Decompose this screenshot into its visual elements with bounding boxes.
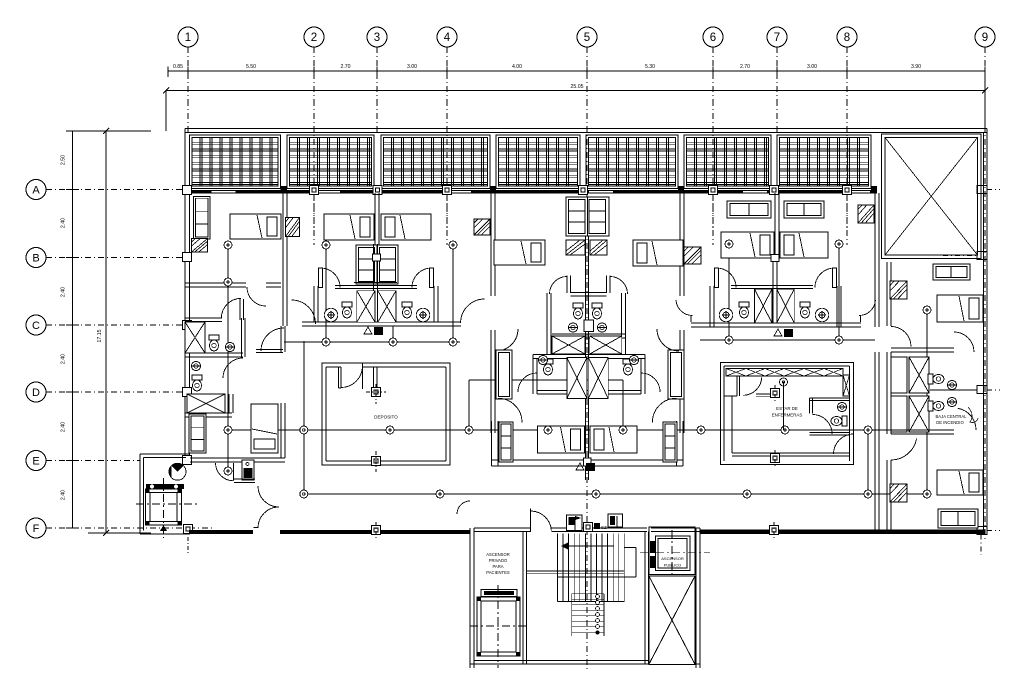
- unit3 toilet D: [623, 359, 633, 375]
- svg-text:2.70: 2.70: [340, 64, 350, 70]
- rightwing door arc C: [891, 327, 911, 347]
- grid bubble 9: [975, 27, 995, 47]
- DEPOSITO room walls: [322, 363, 450, 465]
- unit3 lower door L: [518, 373, 537, 392]
- grid line 5 dash: [586, 100, 588, 672]
- marker right wall row D: [977, 386, 987, 394]
- nurses hatch col: [843, 375, 850, 396]
- unit4 sink L: [719, 308, 733, 322]
- node 623,430: [619, 426, 627, 434]
- unit3 lower walls: [491, 459, 683, 461]
- grid bubble B: [26, 248, 46, 268]
- stair door leaf+arc: [530, 509, 532, 533]
- rightwing bath bottom wall: [891, 429, 954, 431]
- svg-text:6: 6: [710, 32, 716, 44]
- unit1 bath2 sink: [191, 361, 200, 370]
- vestibule double door: [258, 486, 279, 507]
- svg-text:5.50: 5.50: [246, 64, 256, 70]
- rightwing hatch: [890, 281, 907, 299]
- left block semicircle drain: [169, 463, 186, 480]
- unit3 spine box: [584, 458, 592, 466]
- left dimension line: [72, 131, 74, 528]
- icon flag 1: [567, 515, 582, 531]
- left exterior wall: [184, 129, 186, 462]
- svg-text:2.40: 2.40: [61, 490, 67, 500]
- lower room sofa: [189, 414, 206, 453]
- rightwing hatch low: [890, 484, 907, 502]
- svg-text:C: C: [32, 320, 40, 332]
- node 326,245: [322, 241, 330, 249]
- grid line 5 stub: [586, 47, 588, 100]
- unit4 toilet L2: [739, 302, 749, 318]
- vestibule door arc: [216, 463, 234, 481]
- column marker x847: [843, 186, 852, 195]
- rightwing toilet B: [928, 401, 944, 411]
- marker right wall row A: [977, 186, 987, 194]
- ceiling/column network lines: [284, 341, 460, 343]
- node 596,494: [592, 490, 600, 498]
- svg-text:F: F: [33, 523, 40, 535]
- unit4 headboard L: [727, 201, 771, 218]
- unit2 corr door arc R: [461, 299, 485, 323]
- wall unit3/unit4 lower: [679, 330, 681, 433]
- unit3 sofa L: [499, 422, 513, 462]
- unit1 room door arc: [247, 287, 266, 306]
- lower stair flight: [572, 593, 604, 595]
- unit1 bath door arc: [223, 358, 243, 378]
- svg-text:ENFERMERAS: ENFERMERAS: [772, 413, 803, 418]
- wall unit2/unit3 upper: [490, 193, 492, 296]
- unit1 bath1 door arc: [221, 298, 241, 318]
- grid line E dash: [46, 460, 140, 462]
- grid bubble 5: [577, 27, 597, 47]
- wall unit4 center: [774, 193, 776, 259]
- svg-text:3.90: 3.90: [911, 64, 921, 70]
- node 469,430: [465, 426, 473, 434]
- unit3 corr door L: [496, 329, 518, 351]
- svg-text:17.15: 17.15: [97, 329, 103, 342]
- node 839,340: [835, 336, 843, 344]
- shaft X bottom: [649, 576, 695, 665]
- terrace rear wall (thick): [190, 190, 878, 194]
- unit1 bath wall low: [185, 352, 243, 354]
- svg-text:3.00: 3.00: [407, 64, 417, 70]
- unit4 sink R: [815, 308, 829, 322]
- grid bubble 1: [178, 27, 198, 47]
- node 729,340: [725, 336, 733, 344]
- unit1 bath shower: [185, 322, 205, 353]
- column marker party x377.5: [373, 186, 382, 195]
- node 868,494: [864, 490, 872, 498]
- grid bubble 3: [367, 27, 387, 47]
- svg-text:4.00: 4.00: [512, 64, 522, 70]
- unit3 sink D: [629, 355, 638, 364]
- svg-text:1: 1: [185, 32, 191, 44]
- svg-text:2.50: 2.50: [61, 155, 67, 165]
- unit3 hatch tri L: [566, 240, 585, 255]
- unit3 lower door R: [652, 398, 676, 422]
- unit2 shower pair: [357, 291, 375, 323]
- unit1 bath toilet: [209, 335, 219, 351]
- grid bubble 6: [703, 27, 723, 47]
- unit2 wardrobe pair: [356, 245, 398, 284]
- nurses sink: [837, 402, 846, 411]
- grid line 1 dash: [187, 100, 189, 135]
- unit2 door arc R: [412, 268, 432, 288]
- rightwing bed low: [937, 470, 983, 495]
- svg-text:PUBLICO: PUBLICO: [664, 563, 682, 568]
- rightwing door arc S2: [958, 408, 976, 430]
- nurses wc walls: [808, 398, 810, 414]
- grid line D dash: [46, 391, 185, 393]
- rightwing bath top wall: [891, 347, 954, 349]
- grid line 6 stub: [712, 47, 714, 100]
- svg-text:BAJA CENTRAL: BAJA CENTRAL: [936, 414, 968, 419]
- wall unit2 center: [374, 193, 376, 259]
- node 228,471: [224, 467, 232, 475]
- unit4 bath walls: [709, 286, 711, 327]
- unit4 hatrack: [858, 205, 874, 223]
- grid line 9 stub: [984, 47, 986, 100]
- unit3 hatrack R: [684, 247, 701, 264]
- node 548,430: [544, 426, 552, 434]
- unit4 toilet R1: [800, 302, 810, 318]
- node 390,430: [386, 426, 394, 434]
- node 453,245: [449, 241, 457, 249]
- unit2 corr door arc L: [292, 300, 316, 324]
- svg-text:5: 5: [584, 32, 590, 44]
- node 228,282: [224, 278, 232, 286]
- terrace party-wall columns: [281, 186, 288, 194]
- unit1 bath top wall: [185, 317, 222, 319]
- unit4 door arc R: [859, 300, 876, 316]
- nurses door arc: [743, 377, 761, 395]
- DEPOSITO col marker top: [372, 388, 381, 397]
- column marker party x583: [579, 186, 588, 195]
- marker south x376: [372, 526, 381, 535]
- grid bubble 2: [304, 27, 324, 47]
- unit3 shower C: [567, 358, 587, 399]
- rightwing corridor wall W: [874, 259, 876, 327]
- south wall thick east: [700, 530, 985, 535]
- svg-text:5.30: 5.30: [645, 64, 655, 70]
- node 839,244: [835, 240, 843, 248]
- svg-text:PRIVADO: PRIVADO: [489, 558, 508, 563]
- unit1 bed: [230, 214, 281, 239]
- svg-text:DE INCENDIO: DE INCENDIO: [936, 420, 964, 425]
- svg-text:ESTAR DE: ESTAR DE: [776, 406, 798, 411]
- unit3 bed R: [633, 240, 683, 266]
- node 228,245: [224, 241, 232, 249]
- unit4 bath door L: [717, 268, 737, 288]
- nurses counter wall: [756, 393, 779, 395]
- node 927,310: [923, 306, 931, 314]
- icon mid: [584, 523, 593, 532]
- grid line 4 dash: [446, 100, 448, 245]
- unit1 hall wall: [280, 326, 282, 352]
- grid line 9 dash: [984, 100, 986, 540]
- rightwing bed: [937, 295, 983, 322]
- column marker party x774: [770, 186, 779, 195]
- node 747,494: [743, 490, 751, 498]
- svg-text:0.85: 0.85: [173, 64, 183, 70]
- nurses entry door: [834, 434, 854, 454]
- grid line 4 stub: [446, 47, 448, 100]
- rightwing shower cells: [891, 357, 907, 393]
- unit1 bath2 toilet: [192, 375, 202, 391]
- svg-text:ASCENSOR: ASCENSOR: [486, 552, 510, 557]
- grid line 8 stub: [846, 47, 848, 100]
- unit1 bath right wall: [241, 318, 243, 357]
- unit3 bed L: [494, 240, 545, 265]
- rightwing sink A: [947, 380, 956, 389]
- grid line C dash: [46, 324, 185, 326]
- svg-text:2.40: 2.40: [61, 287, 67, 297]
- unit3 bed C1: [538, 426, 585, 453]
- unit1 bath sink: [225, 342, 234, 351]
- node 440,494: [436, 490, 444, 498]
- rightwing sink B: [947, 397, 956, 406]
- unit4 bed R: [780, 232, 828, 258]
- rightwing headboard: [933, 264, 970, 280]
- svg-text:ASCENSOR: ASCENSOR: [661, 556, 684, 561]
- unit1 bath stub: [239, 299, 241, 320]
- top dimension line: [168, 70, 985, 72]
- grid bubble A: [26, 180, 46, 200]
- nurses shelf X strip: [726, 369, 843, 377]
- wall unit1/unit2: [282, 193, 284, 326]
- svg-text:2: 2: [311, 32, 317, 44]
- unit3 hatch tri R: [590, 240, 607, 255]
- nurses node: [780, 378, 788, 386]
- svg-text:D: D: [32, 387, 40, 399]
- node 303.8,494: [300, 490, 308, 498]
- grid line 7 dash: [776, 100, 778, 135]
- left dimension 17.15: [105, 131, 107, 533]
- unit4 headboard R: [784, 201, 824, 218]
- unit3 sofa R: [663, 422, 677, 462]
- svg-text:B: B: [32, 253, 39, 265]
- node 927,494: [923, 490, 931, 498]
- unit3 corr door R: [657, 329, 679, 351]
- svg-text:A: A: [32, 185, 40, 197]
- vestibule inner wall: [234, 478, 255, 480]
- nurses marker mid: [771, 389, 780, 398]
- svg-text:DEPOSITO: DEPOSITO: [374, 415, 398, 420]
- rightwing sofa low: [938, 509, 978, 528]
- unit3 shower A: [552, 336, 585, 354]
- svg-text:PACIENTES: PACIENTES: [486, 570, 510, 575]
- main stair flight: [557, 534, 559, 602]
- lower room bed: [251, 404, 278, 453]
- unit2 spine box: [373, 254, 381, 261]
- svg-text:2.40: 2.40: [61, 422, 67, 432]
- unit3 spine box: [584, 320, 594, 332]
- wall unit2/unit3 lower: [490, 330, 492, 433]
- unit4 spine: [772, 259, 774, 323]
- rightwing wall E: [886, 262, 888, 326]
- DEPOSITO door arc: [341, 367, 363, 387]
- node 701,430: [697, 426, 705, 434]
- grid line F dash: [46, 527, 215, 529]
- grid line B dash: [46, 257, 185, 259]
- unit2 bath sink R: [416, 308, 430, 322]
- unit2 bath walls: [313, 286, 315, 322]
- nurses wc door: [813, 415, 833, 435]
- unit2 bed left: [324, 214, 374, 240]
- grid bubble 7: [767, 27, 787, 47]
- unit3 closet R: [668, 350, 684, 399]
- terrace hatched tile strip: [190, 135, 281, 189]
- unit1 luggage rack: [192, 239, 208, 253]
- unit3 lower door L: [498, 398, 522, 422]
- svg-text:2.40: 2.40: [61, 354, 67, 364]
- marker right wall row F: [977, 527, 987, 535]
- unit4 bath top wall: [731, 285, 813, 287]
- grid bubble C: [26, 315, 46, 335]
- left wall jamb y460: [183, 456, 192, 465]
- unit4 shower pair: [755, 289, 773, 323]
- overall dimension 25.05: [166, 90, 985, 92]
- unit1 bath wall h: [185, 282, 246, 284]
- corridor door arc blk: [457, 501, 470, 514]
- nurses station walls: [721, 362, 854, 464]
- wall unit4/rightwing: [874, 193, 876, 259]
- unit3 toilet A: [573, 303, 583, 319]
- public elevator car: [649, 527, 695, 575]
- unit2 bath sink L: [324, 308, 338, 322]
- unit3 sink A: [568, 323, 577, 332]
- stair block shell: [469, 528, 471, 668]
- column marker x447: [443, 186, 452, 195]
- svg-text:8: 8: [844, 32, 850, 44]
- unit3 lower door R2: [641, 373, 660, 392]
- node 303.8,430: [300, 426, 308, 434]
- stair block top walls: [474, 527, 530, 529]
- node 393,342: [389, 338, 397, 346]
- unit3 door arc TL: [550, 277, 568, 295]
- DEPOSITO col marker bot: [372, 457, 381, 466]
- node 326,342: [322, 338, 330, 346]
- node 729,244: [725, 240, 733, 248]
- unit4 bed L: [721, 232, 774, 258]
- grid bubble 4: [437, 27, 457, 47]
- node 228,430: [224, 426, 232, 434]
- public elev dashdot: [640, 552, 710, 554]
- rightwing toilet A: [928, 374, 944, 384]
- grid bubble D: [26, 382, 46, 402]
- marker block corner: [184, 525, 193, 534]
- lower room wall E: [280, 403, 282, 458]
- svg-text:PARA: PARA: [492, 564, 503, 569]
- unit4 bath door R: [815, 268, 835, 288]
- marker right wall row B: [977, 252, 987, 260]
- grid bubble F: [26, 518, 46, 538]
- right exterior wall: [983, 133, 985, 532]
- grid line 2 stub: [313, 47, 315, 100]
- unit1 hall south wall: [256, 349, 283, 351]
- svg-text:9: 9: [982, 32, 988, 44]
- unit1 luggage rack 2: [286, 218, 300, 237]
- svg-text:2.40: 2.40: [61, 218, 67, 228]
- stair inner wall W: [522, 532, 524, 665]
- rightwing bath arc: [954, 332, 974, 352]
- left block inner wall: [190, 457, 285, 459]
- unit3 closet L: [496, 350, 512, 399]
- unit2 bed right: [381, 214, 431, 240]
- left wall jamb y190: [183, 186, 192, 195]
- grid line 3 dash: [376, 100, 378, 135]
- svg-text:3.00: 3.00: [807, 64, 817, 70]
- svg-text:E: E: [32, 456, 39, 468]
- unit3 bath stack walls: [546, 293, 548, 354]
- left wall jamb y325: [183, 321, 192, 330]
- grid bubble 8: [837, 27, 857, 47]
- grid line 3 stub: [376, 47, 378, 100]
- unit3 sink B: [597, 323, 606, 332]
- grid line 1 stub: [187, 47, 189, 100]
- svg-text:SZ: SZ: [601, 525, 607, 530]
- unit3 headboard pair: [566, 197, 609, 236]
- unit2 door arc L: [321, 268, 341, 288]
- top exterior wall: [185, 128, 987, 130]
- unit4 door arc L: [676, 300, 693, 316]
- unit3 toilet B: [592, 303, 602, 319]
- private elevator car: [477, 597, 520, 656]
- wall unit3/unit4 upper: [679, 193, 681, 296]
- large void shaft with X: [882, 134, 982, 259]
- svg-text:7: 7: [774, 32, 780, 44]
- unit3 hatrack L: [474, 219, 490, 235]
- unit1 bath2 wall: [185, 412, 232, 414]
- left wall jamb y392: [183, 388, 192, 397]
- left block shell: [140, 453, 190, 455]
- node 453,342: [449, 338, 457, 346]
- unit2 bath toilet R1: [402, 302, 412, 318]
- stair inner wall E: [644, 532, 646, 665]
- left wall jamb y257: [183, 253, 192, 262]
- unit3 sink C: [538, 355, 547, 364]
- hall east wall: [303, 341, 305, 461]
- icon flag 2: [608, 514, 623, 527]
- node 785,430: [781, 426, 789, 434]
- grid bubble E: [26, 451, 46, 471]
- unit3 door arc TR: [610, 277, 628, 295]
- unit3 toilet C: [543, 359, 553, 375]
- left elevator car: [146, 489, 182, 525]
- unit2 section marker: [364, 327, 372, 334]
- nurses niche: [736, 376, 738, 396]
- unit3 bed C2: [590, 426, 637, 453]
- south wall thick west: [189, 530, 253, 534]
- vestibule fixture: [242, 460, 254, 480]
- nurses toilet: [831, 416, 847, 426]
- svg-text:2.70: 2.70: [740, 64, 750, 70]
- grid line 2 dash: [313, 100, 315, 245]
- rightwing door arc S: [891, 439, 917, 461]
- svg-text:25.05: 25.05: [571, 84, 584, 90]
- grid line 8 dash: [846, 100, 848, 245]
- unit4 section marker: [774, 329, 782, 336]
- node 868,430: [864, 426, 872, 434]
- grid line 6 dash: [712, 100, 714, 245]
- column marker x713: [709, 186, 718, 195]
- unit1 sofa: [194, 196, 211, 239]
- unit2 bath toilet L2: [342, 302, 352, 318]
- nurses marker bot: [771, 454, 780, 463]
- column marker x314: [310, 186, 319, 195]
- unit3 section marker: [576, 463, 584, 470]
